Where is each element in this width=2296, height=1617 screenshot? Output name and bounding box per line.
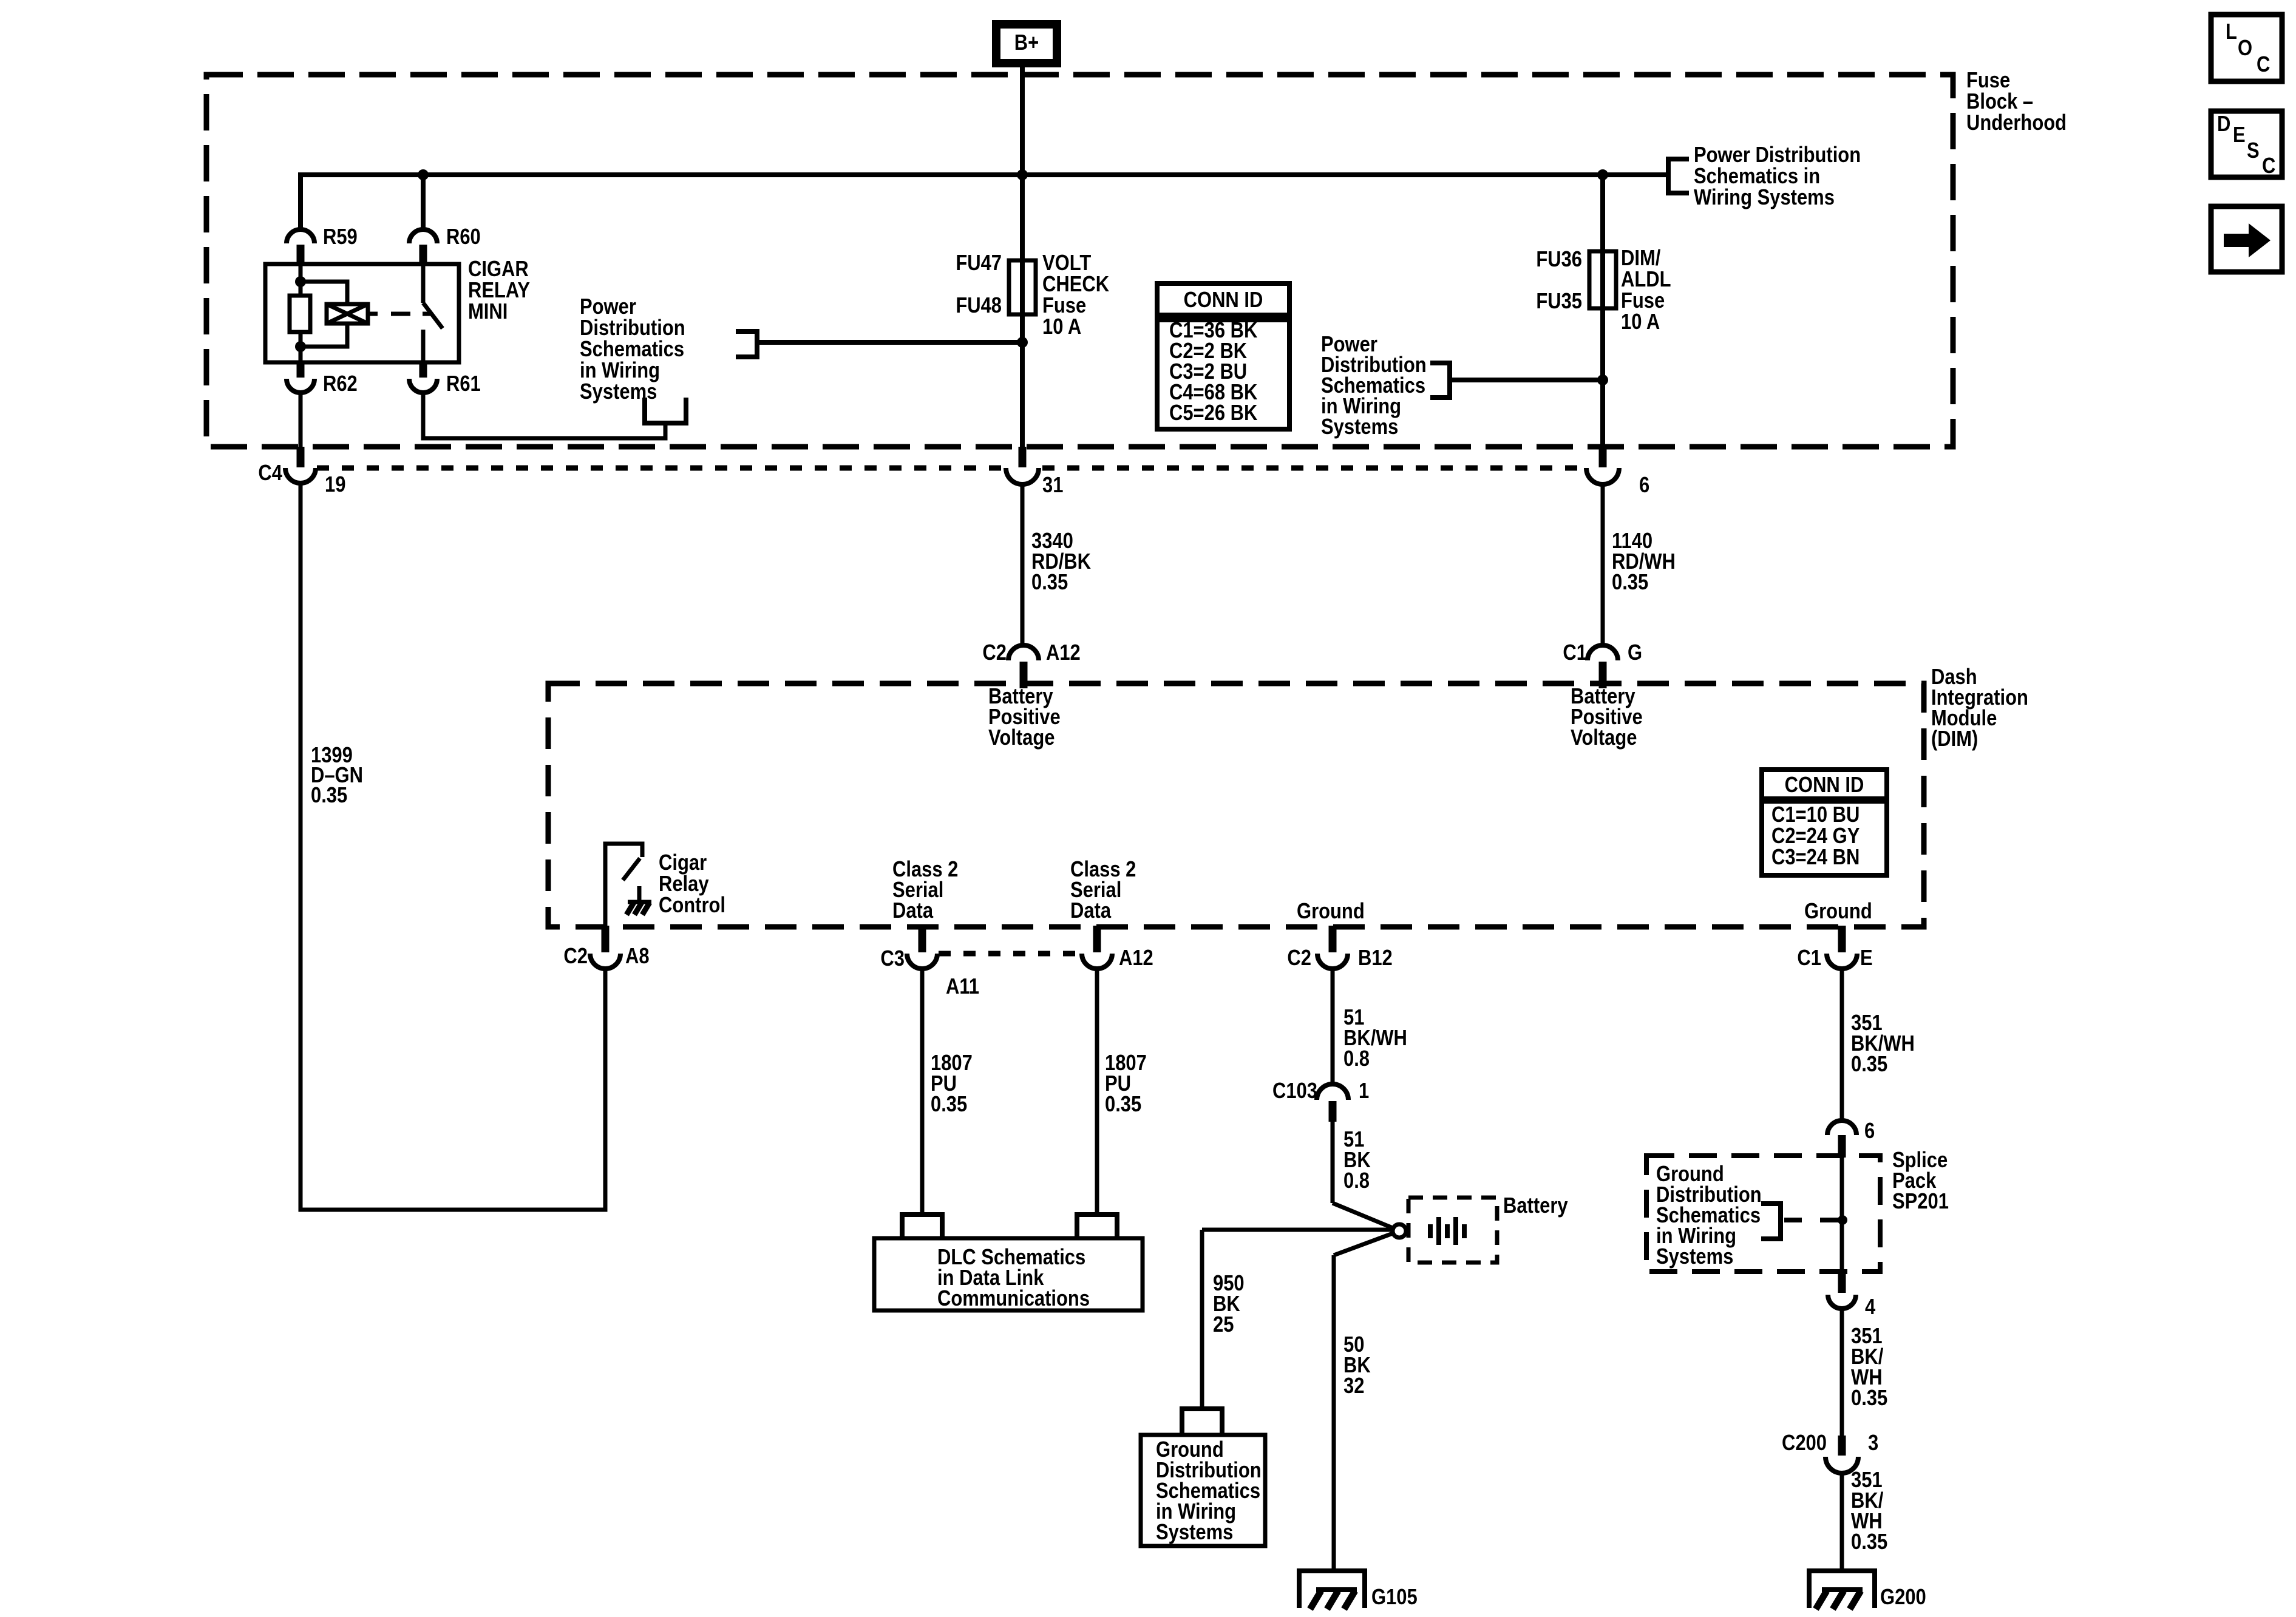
- svg-text:C200: C200: [1782, 1431, 1827, 1456]
- svg-text:R60: R60: [446, 225, 481, 249]
- svg-text:31: 31: [1042, 473, 1063, 498]
- svg-text:CONN ID: CONN ID: [1785, 773, 1864, 798]
- svg-text:C2: C2: [563, 944, 588, 969]
- svg-text:A12: A12: [1119, 946, 1153, 971]
- svg-text:10 A: 10 A: [1621, 310, 1660, 334]
- svg-text:1: 1: [1359, 1079, 1369, 1103]
- svg-text:C3=24 BN: C3=24 BN: [1771, 846, 1860, 870]
- svg-text:MINI: MINI: [468, 300, 508, 324]
- svg-text:C1=10 BU: C1=10 BU: [1771, 803, 1860, 827]
- svg-text:B+: B+: [1014, 31, 1039, 55]
- svg-text:Ground: Ground: [1297, 900, 1365, 924]
- svg-text:R59: R59: [323, 225, 358, 249]
- svg-text:C4: C4: [258, 461, 282, 486]
- svg-text:Fuse: Fuse: [1966, 69, 2010, 93]
- svg-text:Distribution: Distribution: [580, 316, 685, 341]
- svg-text:0.35: 0.35: [1031, 571, 1068, 595]
- svg-text:0.35: 0.35: [1612, 571, 1648, 595]
- svg-text:Communications: Communications: [937, 1287, 1090, 1311]
- svg-text:A8: A8: [625, 944, 650, 969]
- svg-text:C2: C2: [982, 641, 1007, 665]
- svg-text:G: G: [1628, 641, 1642, 665]
- svg-text:D: D: [2217, 112, 2230, 137]
- svg-text:Voltage: Voltage: [988, 726, 1055, 750]
- svg-text:RELAY: RELAY: [468, 279, 530, 303]
- svg-text:G200: G200: [1880, 1585, 1926, 1610]
- svg-text:C3: C3: [880, 947, 905, 971]
- svg-text:25: 25: [1213, 1313, 1234, 1337]
- svg-text:(DIM): (DIM): [1931, 727, 1978, 751]
- svg-text:0.35: 0.35: [1851, 1053, 1887, 1077]
- svg-text:C1: C1: [1563, 641, 1587, 665]
- svg-text:R61: R61: [446, 372, 481, 396]
- svg-text:32: 32: [1343, 1374, 1364, 1398]
- svg-text:3: 3: [1868, 1431, 1878, 1456]
- svg-text:Underhood: Underhood: [1966, 111, 2067, 135]
- svg-text:Control: Control: [659, 893, 725, 918]
- svg-text:Fuse: Fuse: [1042, 294, 1086, 318]
- svg-text:A11: A11: [946, 975, 979, 999]
- svg-text:Power: Power: [580, 295, 636, 319]
- svg-text:ALDL: ALDL: [1621, 268, 1671, 292]
- svg-text:O: O: [2238, 36, 2252, 61]
- svg-text:0.35: 0.35: [1851, 1530, 1887, 1554]
- svg-text:Cigar: Cigar: [659, 851, 707, 875]
- svg-text:6: 6: [1639, 473, 1649, 498]
- svg-text:0.35: 0.35: [311, 784, 347, 808]
- svg-text:CONN ID: CONN ID: [1184, 288, 1263, 313]
- svg-text:Voltage: Voltage: [1571, 726, 1637, 750]
- svg-text:0.8: 0.8: [1343, 1169, 1370, 1193]
- svg-text:Battery: Battery: [1503, 1194, 1568, 1218]
- svg-text:B12: B12: [1358, 946, 1393, 971]
- svg-text:0.35: 0.35: [931, 1093, 967, 1117]
- svg-text:Systems: Systems: [580, 380, 657, 404]
- svg-text:C103: C103: [1272, 1079, 1317, 1103]
- svg-text:FU35: FU35: [1536, 290, 1582, 314]
- svg-text:CHECK: CHECK: [1042, 273, 1109, 297]
- svg-text:CIGAR: CIGAR: [468, 257, 529, 282]
- svg-text:FU36: FU36: [1536, 248, 1582, 272]
- svg-text:Block –: Block –: [1966, 90, 2033, 114]
- svg-text:Schematics: Schematics: [580, 337, 684, 362]
- svg-text:in Wiring: in Wiring: [580, 359, 660, 383]
- svg-text:VOLT: VOLT: [1042, 251, 1092, 276]
- svg-text:C: C: [2257, 53, 2270, 77]
- svg-text:Data: Data: [892, 899, 933, 923]
- svg-text:Relay: Relay: [659, 872, 709, 897]
- svg-text:FU48: FU48: [956, 294, 1002, 318]
- svg-text:FU47: FU47: [956, 251, 1002, 276]
- svg-text:C2=24 GY: C2=24 GY: [1771, 824, 1860, 849]
- svg-text:Systems: Systems: [1321, 415, 1398, 439]
- svg-text:Data: Data: [1070, 899, 1111, 923]
- svg-text:C: C: [2262, 154, 2275, 178]
- svg-text:C1: C1: [1797, 946, 1821, 971]
- svg-text:Fuse: Fuse: [1621, 289, 1665, 313]
- svg-text:G105: G105: [1371, 1585, 1418, 1610]
- svg-text:Ground: Ground: [1804, 900, 1872, 924]
- svg-text:4: 4: [1865, 1295, 1876, 1320]
- svg-text:0.8: 0.8: [1343, 1047, 1370, 1071]
- svg-text:Power Distribution: Power Distribution: [1694, 143, 1861, 168]
- svg-text:6: 6: [1864, 1119, 1875, 1144]
- svg-text:Systems: Systems: [1156, 1520, 1233, 1545]
- svg-text:Systems: Systems: [1656, 1245, 1733, 1269]
- svg-text:S: S: [2247, 139, 2260, 163]
- svg-text:R62: R62: [323, 372, 358, 396]
- svg-text:C5=26 BK: C5=26 BK: [1169, 401, 1257, 425]
- svg-text:0.35: 0.35: [1105, 1093, 1141, 1117]
- svg-text:E: E: [1860, 946, 1873, 971]
- svg-text:C2: C2: [1287, 946, 1311, 971]
- svg-text:L: L: [2226, 20, 2237, 44]
- svg-text:SP201: SP201: [1892, 1190, 1949, 1214]
- svg-text:0.35: 0.35: [1851, 1386, 1887, 1411]
- svg-text:19: 19: [325, 473, 345, 497]
- svg-text:10 A: 10 A: [1042, 315, 1081, 339]
- svg-text:A12: A12: [1046, 641, 1081, 665]
- svg-text:Schematics in: Schematics in: [1694, 164, 1820, 189]
- svg-text:E: E: [2233, 123, 2246, 147]
- svg-text:DIM/: DIM/: [1621, 246, 1660, 271]
- svg-text:Wiring Systems: Wiring Systems: [1694, 186, 1835, 210]
